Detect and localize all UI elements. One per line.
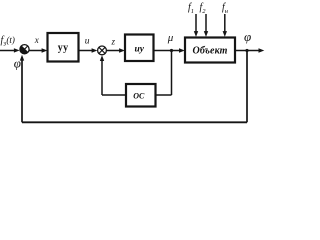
svg-text:x: x: [34, 35, 39, 45]
svg-text:Объект: Объект: [193, 45, 228, 56]
svg-text:уу: уу: [58, 43, 69, 54]
svg-text:z: z: [111, 36, 116, 46]
wire: IU to Object: [154, 50, 182, 52]
disturbance arrow f1: [195, 14, 197, 33]
wire: right vertical down: [246, 51, 248, 123]
wire: tap to OS input: [156, 94, 172, 96]
arrowhead into S1: [14, 48, 20, 52]
svg-text:и: и: [85, 37, 90, 47]
svg-text:иу: иу: [134, 45, 144, 55]
disturbance arrow f2: [205, 14, 207, 33]
block UU (controller): [48, 33, 79, 62]
svg-text:μ: μ: [167, 32, 174, 44]
arrowhead into Object: [179, 48, 185, 52]
wire: feedback tap down from mu line: [171, 51, 173, 96]
arrowhead into IU: [119, 48, 125, 52]
wire: input f3(t) into summer S1: [0, 50, 16, 52]
arrowhead into S2: [92, 48, 98, 52]
wire: Object output phi: [235, 50, 261, 52]
wire: S1 to UU: [29, 50, 43, 52]
wire: S2 to IU: [106, 50, 121, 52]
arrowhead into UU: [42, 48, 48, 52]
arrowhead output right: [259, 48, 265, 52]
block Object (plant): [185, 38, 235, 63]
wire: UU to summer S2: [79, 50, 94, 52]
svg-text:φ: φ: [244, 29, 251, 44]
junction dot on phi line: [245, 49, 248, 52]
junction dot on mu line: [170, 49, 173, 52]
disturbance arrow fn: [224, 14, 226, 33]
block IU (actuator): [125, 35, 154, 62]
svg-text:ОС: ОС: [133, 92, 145, 101]
wire: up to S2: [101, 59, 103, 95]
wire: bottom rail: [22, 121, 247, 123]
summing junction S2: [98, 46, 107, 55]
summing junction S1: [20, 45, 29, 54]
wire: left vertical up to S1: [21, 59, 23, 123]
wire: OS output left: [102, 94, 126, 96]
svg-text:φ: φ: [14, 56, 21, 71]
block OS (feedback): [126, 84, 156, 107]
